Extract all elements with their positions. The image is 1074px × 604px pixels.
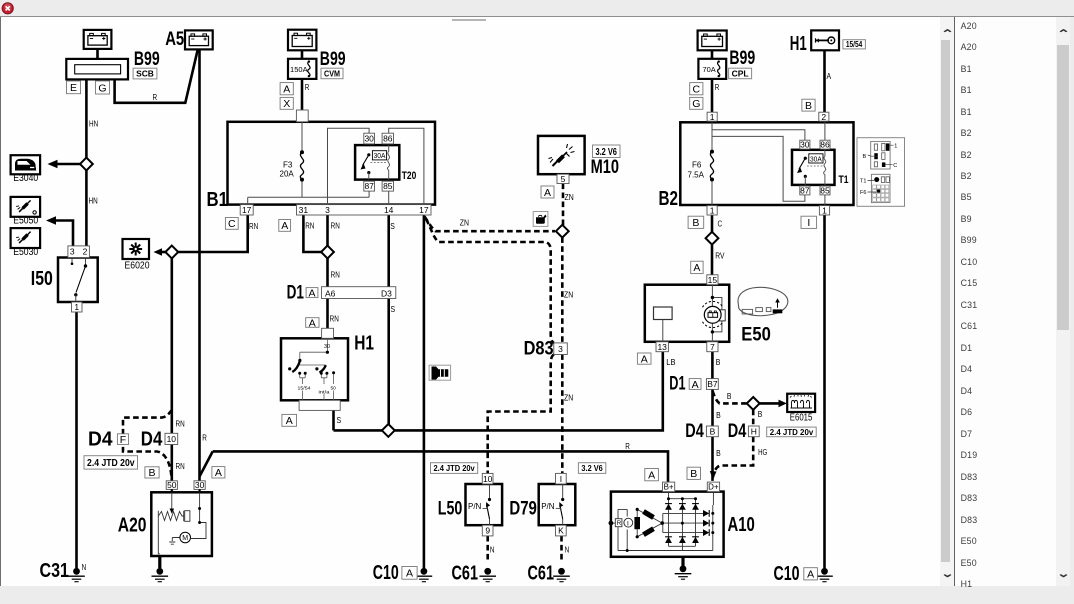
wire B from E50 pin 7 to D1 pin B7 <box>711 352 714 379</box>
wire battery link B99-SCB <box>96 49 99 59</box>
wire arrow branch to E6020 <box>158 251 167 254</box>
connector B1 conn A <box>279 220 291 232</box>
wire solid arrow from splice to E6015 <box>760 402 783 405</box>
wire B/HG dashed from splice through D4 pin H to A10 D+ wire <box>713 410 753 478</box>
svg-text:D79: D79 <box>509 498 537 519</box>
label CVM <box>321 68 343 79</box>
splice diamond E6020 branch <box>165 246 178 259</box>
wire E5050 branch to I50 pin 3 <box>56 221 73 246</box>
svg-text:1: 1 <box>710 205 715 215</box>
connector C10 left conn A <box>402 567 417 580</box>
connector B2 conn B <box>688 216 704 228</box>
svg-text:A: A <box>286 415 293 427</box>
wire S from relay H1 to bus <box>332 410 335 430</box>
fuse F6 7.5A in B2 <box>688 150 715 182</box>
svg-text:L50: L50 <box>438 498 463 519</box>
svg-text:B+: B+ <box>664 483 674 492</box>
pin D79 pin I <box>556 473 567 484</box>
svg-text:H1: H1 <box>790 33 807 55</box>
arrowhead to E5050 <box>46 216 56 224</box>
connector B99-CPL pin C <box>690 83 703 95</box>
svg-text:R: R <box>625 441 630 451</box>
splice diamond B to E6015 <box>747 397 760 410</box>
svg-text:B: B <box>758 409 763 419</box>
svg-text:ZN: ZN <box>460 217 469 227</box>
svg-text:A: A <box>283 84 290 96</box>
svg-text:20A: 20A <box>280 170 295 179</box>
label 3.2V6 M10 <box>593 145 621 158</box>
svg-text:B: B <box>716 410 721 420</box>
pin T1 pin 87 <box>800 186 810 195</box>
svg-text:C: C <box>893 163 897 169</box>
pin H1 top pin <box>322 328 334 338</box>
splice diamond E3040 branch <box>80 158 93 171</box>
pin D4 pin H <box>748 426 759 437</box>
wire dashed bypass D4 pin F (2.4 JTD 20v) <box>123 410 172 477</box>
svg-text:HN: HN <box>89 119 98 129</box>
svg-text:C: C <box>718 218 723 228</box>
connector D1 conn A lower <box>689 379 701 390</box>
ECU box B2 <box>680 122 853 205</box>
svg-text:2.4 JTD 20v: 2.4 JTD 20v <box>770 427 814 437</box>
connector B99-CVM pin A <box>280 83 293 95</box>
wire A from ignition switch H1 to B2 pin 2 <box>823 50 826 112</box>
pin B1 top pin X <box>296 110 308 122</box>
wire from B2 pin 1 right to ground C10 <box>823 215 826 568</box>
svg-text:H: H <box>751 426 757 436</box>
wire ground stub A10 <box>681 557 684 566</box>
svg-text:10: 10 <box>483 474 493 484</box>
pin A20 pin 50 <box>166 481 177 490</box>
svg-text:HN: HN <box>89 196 98 206</box>
svg-text:150A: 150A <box>290 65 308 74</box>
svg-text:31: 31 <box>299 205 309 215</box>
pin E50 pin 13 <box>656 342 668 352</box>
relay H1 ignition <box>281 338 348 400</box>
wire ground stub A20 <box>158 556 161 568</box>
car location bubble for E50 <box>738 287 788 315</box>
pin L50 pin 9 <box>482 525 493 536</box>
svg-text:S: S <box>391 304 396 314</box>
close button <box>1 1 21 21</box>
battery icon B99 CPL <box>698 31 727 51</box>
svg-text:2.4 JTD 20v: 2.4 JTD 20v <box>434 463 475 473</box>
rectifier diodes <box>665 504 672 510</box>
module M10 <box>538 136 585 174</box>
svg-text:N: N <box>82 562 87 572</box>
pin T20 pin 87 <box>364 181 375 191</box>
icon E6020 <box>123 239 150 259</box>
svg-text:RN: RN <box>176 461 185 471</box>
svg-text:C61: C61 <box>528 562 555 584</box>
svg-text:T20: T20 <box>402 170 417 182</box>
svg-text:B: B <box>727 391 732 401</box>
svg-text:A10: A10 <box>728 514 755 536</box>
svg-text:70A: 70A <box>703 65 716 74</box>
svg-text:A: A <box>406 568 413 580</box>
heater E6015 <box>787 394 815 412</box>
pin B2 top pin 1 <box>707 112 717 121</box>
label 2.4JTD left <box>84 456 138 469</box>
switch L50 <box>466 484 503 525</box>
svg-text:50: 50 <box>167 480 177 490</box>
junction unit B99 SCB <box>66 59 128 80</box>
svg-text:30A: 30A <box>374 151 386 160</box>
pin T20 pin 86 <box>382 133 393 144</box>
label 2.4JTD L50 <box>431 463 478 474</box>
B2 internal wiring <box>712 122 825 205</box>
svg-text:K: K <box>558 526 564 536</box>
pin L50 pin 10 <box>482 473 493 484</box>
icon E3040 door lock <box>11 155 40 174</box>
pin H1 bottom strip <box>299 400 340 410</box>
svg-text:A: A <box>641 353 648 365</box>
svg-text:50: 50 <box>331 385 337 391</box>
svg-text:E3040: E3040 <box>13 173 38 184</box>
svg-text:E5030: E5030 <box>13 247 38 258</box>
connector E50 conn A <box>691 261 703 273</box>
charge warning gauge in E50 <box>704 306 721 323</box>
pin D79 pin K <box>556 525 567 536</box>
svg-text:C31: C31 <box>40 560 70 582</box>
svg-text:A: A <box>827 71 832 81</box>
svg-text:30: 30 <box>195 480 205 490</box>
svg-text:E5050: E5050 <box>13 215 38 226</box>
svg-text:E6020: E6020 <box>125 260 150 271</box>
svg-text:F3: F3 <box>283 161 293 170</box>
svg-text:C: C <box>228 218 236 230</box>
icon E5050 <box>11 197 40 217</box>
pin T1 pin 30 <box>800 140 810 149</box>
svg-text:D4: D4 <box>685 421 704 442</box>
svg-text:B99: B99 <box>134 49 160 70</box>
battery icon B99 SCB <box>84 30 112 49</box>
svg-text:F6: F6 <box>692 161 702 170</box>
svg-text:I: I <box>627 520 629 527</box>
svg-text:C10: C10 <box>373 562 399 584</box>
svg-text:P/N: P/N <box>468 502 482 511</box>
pin M10 pin 5 <box>557 174 569 183</box>
arrowhead to E6015 <box>779 400 787 408</box>
svg-text:A6: A6 <box>325 289 336 299</box>
stator windings <box>634 517 640 529</box>
ground C31 <box>68 568 85 582</box>
svg-text:30A: 30A <box>810 154 822 163</box>
svg-text:E50: E50 <box>741 324 771 345</box>
svg-text:RN: RN <box>176 418 185 428</box>
arrowhead to E3040 <box>48 160 58 168</box>
wire RV from B2 pin 1 to E50 pin 15 <box>711 215 714 275</box>
splice diamond S bus <box>382 424 395 437</box>
svg-text:30: 30 <box>364 134 374 144</box>
splice diamond on RV wire below B2 <box>706 232 719 245</box>
wire battery to fuse B99-CPL <box>711 50 714 59</box>
svg-text:A: A <box>807 569 814 581</box>
arrowhead to E6020 <box>154 248 163 256</box>
svg-text:B2: B2 <box>659 188 679 210</box>
connector B2 conn I <box>801 216 817 228</box>
svg-text:A: A <box>544 187 551 199</box>
pin D1 pin B7 <box>706 379 718 390</box>
ground C61 right <box>553 568 570 582</box>
svg-text:87: 87 <box>364 181 374 191</box>
svg-text:RN: RN <box>331 220 340 230</box>
svg-text:ZN: ZN <box>565 192 574 202</box>
splice diamond ZN <box>556 225 569 238</box>
svg-text:G: G <box>98 82 106 94</box>
instrument panel E50 <box>645 285 729 342</box>
wire I50 pin 1 to ground C31 <box>75 312 78 568</box>
pin B1 pin strip <box>297 205 432 215</box>
pin A10 pin B+ <box>663 482 675 492</box>
connector H1 conn A top <box>306 318 319 328</box>
svg-text:85: 85 <box>820 186 830 196</box>
svg-text:H1: H1 <box>354 332 374 354</box>
svg-text:2.4 JTD 20v: 2.4 JTD 20v <box>87 458 135 469</box>
svg-text:S: S <box>337 415 342 425</box>
wire S from B1 pin 14 to bus diamond <box>387 215 390 425</box>
connector A20 conn A <box>212 467 225 478</box>
pin A20 pin 30 <box>194 481 205 490</box>
svg-text:ZN: ZN <box>564 392 573 402</box>
svg-text:1: 1 <box>74 302 79 312</box>
alternator A10 <box>609 492 724 557</box>
wire from B1 pin 17 right to ground C10 <box>423 215 426 568</box>
connector D4 pin F <box>117 434 128 445</box>
svg-text:1: 1 <box>710 112 715 122</box>
svg-text:M: M <box>182 535 188 542</box>
svg-text:R: R <box>617 521 622 527</box>
svg-text:A: A <box>693 262 700 274</box>
pin E50 pin 15 <box>707 275 718 285</box>
icon oil can (near M10) <box>533 212 548 227</box>
wire diagonal joining R bus to A20 pin 30 wire <box>200 451 213 476</box>
svg-text:F: F <box>120 434 126 446</box>
svg-text:D4: D4 <box>141 428 163 450</box>
wire RN from B1 pin 17 to D4 pin 10 and A20 pin 50 <box>178 215 248 252</box>
svg-text:CPL: CPL <box>732 69 749 79</box>
svg-text:30: 30 <box>800 140 810 150</box>
connector A10 conn A <box>645 469 659 481</box>
switch I50 <box>58 258 98 303</box>
svg-text:D3: D3 <box>381 289 392 299</box>
connector E50 conn A bottom <box>637 353 651 364</box>
icon E5030 <box>11 228 40 248</box>
pin T20 pin 30 <box>364 133 375 144</box>
connector C10 right conn A <box>804 568 818 580</box>
svg-text:86: 86 <box>820 140 830 150</box>
svg-text:A20: A20 <box>118 515 147 537</box>
wire ZN dashed from M10 pin 5 to splice diamond <box>562 184 565 226</box>
wire ZN dashed from B1 pin 17 to splice diamond <box>425 217 556 232</box>
wire RN from B1 pin 3 through D1 pin A6 to relay H1 <box>326 215 329 328</box>
label 2.4JTD right <box>767 427 817 437</box>
svg-text:B: B <box>805 100 812 112</box>
svg-text:3: 3 <box>325 205 330 215</box>
wire R from B99-SCB pin G to battery A5 <box>115 50 198 103</box>
connector M10 conn A <box>541 186 554 198</box>
svg-text:S: S <box>390 221 395 231</box>
svg-text:17: 17 <box>419 205 429 215</box>
pin I50 pin strip <box>68 246 90 258</box>
svg-text:A: A <box>309 317 316 329</box>
wire R from fuse B99-CVM to B1 pin X <box>301 79 304 110</box>
icon injector (near D83) <box>429 365 451 380</box>
ignition switch H1 key symbol <box>811 30 839 50</box>
wire B from D1 pin B7 to A10 pin D+ <box>711 389 714 481</box>
pin B2 bottom pin 1 right <box>819 206 829 215</box>
svg-text:15/54: 15/54 <box>846 40 863 49</box>
fuse 150A B99 CVM <box>288 59 316 79</box>
wire HN from B99-SCB pin E down to I50 pin 2 <box>85 79 88 246</box>
svg-text:1: 1 <box>822 205 827 215</box>
svg-text:I: I <box>560 474 562 484</box>
ground A20 <box>152 568 169 582</box>
pin D4 pin B <box>706 426 718 437</box>
svg-text:7.5A: 7.5A <box>688 171 705 180</box>
svg-text:2: 2 <box>83 247 88 257</box>
relay T1 <box>792 150 849 186</box>
svg-text:C10: C10 <box>774 563 800 585</box>
svg-text:int/a: int/a <box>319 390 330 396</box>
arrowhead on HG wire joining D+ wire <box>710 471 717 480</box>
svg-text:E6015: E6015 <box>790 412 813 423</box>
connector B99-CVM pin X <box>280 97 293 109</box>
ground C10 right <box>816 568 833 582</box>
svg-text:B7: B7 <box>707 379 718 389</box>
svg-text:C: C <box>693 84 701 96</box>
wire ZN dashed from B1 pin 17 to D83 pin 3 <box>426 219 554 343</box>
svg-text:5: 5 <box>561 174 566 184</box>
svg-text:15: 15 <box>708 275 718 285</box>
svg-text:7: 7 <box>710 342 715 352</box>
connector B99 pin E <box>67 81 81 94</box>
wire bus R to alternator A10 pin B+ <box>213 451 668 482</box>
svg-text:B99: B99 <box>729 48 755 69</box>
svg-text:R: R <box>715 82 720 92</box>
svg-text:ZN: ZN <box>564 289 573 299</box>
svg-text:RN: RN <box>249 221 258 231</box>
svg-text:RN: RN <box>305 220 314 230</box>
svg-text:T1: T1 <box>839 174 849 186</box>
svg-text:A: A <box>308 287 315 299</box>
connector B99 pin G <box>96 81 110 94</box>
wire battery to fuse B99-CVM <box>301 50 304 59</box>
svg-text:3: 3 <box>558 344 563 354</box>
fuse 70A B99 CPL <box>698 59 726 79</box>
pin D83 pin 3 <box>554 343 568 355</box>
svg-text:RN: RN <box>331 269 340 279</box>
svg-text:D4: D4 <box>88 428 113 450</box>
ECU box B1 <box>228 122 436 205</box>
svg-text:N: N <box>565 544 570 554</box>
svg-text:LB: LB <box>666 357 675 367</box>
connector H1 pin B <box>802 99 815 111</box>
svg-text:3.2 V6: 3.2 V6 <box>595 147 617 158</box>
svg-text:RN: RN <box>330 314 339 324</box>
connector D1 conn A <box>306 288 318 298</box>
wire B dashed from D1 pin B7 to splice <box>713 391 748 403</box>
label SCB <box>133 68 157 79</box>
svg-text:B: B <box>692 217 699 229</box>
wire bus S/LB from H1 to E50 pin 13 <box>334 352 663 431</box>
title smudge <box>452 19 486 22</box>
svg-text:RV: RV <box>715 250 724 260</box>
svg-text:B: B <box>690 468 697 480</box>
ground C61 left <box>479 568 496 582</box>
svg-text:B: B <box>716 357 721 367</box>
wire RN from B1 pin 31 to merge diamond <box>303 215 321 252</box>
svg-text:D83: D83 <box>524 338 554 359</box>
svg-text:B: B <box>148 467 155 479</box>
splice diamond RN merge <box>321 246 334 259</box>
pin B1 pin 17 left <box>240 205 253 215</box>
battery icon A5 <box>185 30 213 49</box>
ground A10 <box>675 565 692 579</box>
wire N dashed from L50 pin 9 to ground C61 <box>486 536 489 562</box>
svg-text:17: 17 <box>242 205 252 215</box>
svg-text:I50: I50 <box>31 268 53 290</box>
relay T20 <box>355 145 416 182</box>
pin D1 strip <box>322 287 396 299</box>
svg-text:14: 14 <box>384 205 394 215</box>
switch D79 <box>539 484 576 525</box>
svg-text:1: 1 <box>894 143 897 149</box>
pin T20 pin 85 <box>382 181 393 191</box>
svg-text:87: 87 <box>800 186 810 196</box>
svg-text:D1: D1 <box>287 283 305 304</box>
pin A10 pin D+ <box>707 482 719 492</box>
svg-text:B1: B1 <box>207 189 229 211</box>
svg-text:15/54: 15/54 <box>298 385 311 391</box>
svg-text:3: 3 <box>70 247 75 257</box>
B1 internal wiring <box>248 122 424 205</box>
svg-text:B99: B99 <box>320 49 346 70</box>
connector H1 conn A bottom <box>282 414 297 426</box>
svg-text:G: G <box>692 98 700 110</box>
wire N dashed from D79 pin K to ground C61 <box>560 536 563 562</box>
pin D4 pin 10 <box>165 433 178 444</box>
svg-text:F6: F6 <box>860 190 866 196</box>
svg-text:A: A <box>648 469 655 481</box>
svg-text:A: A <box>692 379 699 391</box>
svg-text:CVM: CVM <box>324 69 340 79</box>
pin E50 pin 7 <box>707 342 718 352</box>
svg-text:R: R <box>153 92 158 102</box>
wire R from fuse B99-CPL to B2 pin 1 <box>711 79 714 112</box>
svg-text:B: B <box>716 448 721 458</box>
pin T1 pin 86 <box>820 140 830 149</box>
svg-text:I: I <box>807 217 810 229</box>
svg-text:E: E <box>70 82 77 94</box>
svg-text:13: 13 <box>657 342 667 352</box>
svg-text:86: 86 <box>383 134 393 144</box>
svg-text:2: 2 <box>821 112 826 122</box>
svg-text:B: B <box>863 154 867 160</box>
connector D4 conn B <box>145 467 159 478</box>
svg-text:B: B <box>710 426 716 436</box>
wire from battery A5 down to A20 pin 30 <box>198 49 201 481</box>
pin I50 pin 1 <box>72 302 83 312</box>
wire branch to E3040 <box>56 163 80 166</box>
label 3.2V6 D79 <box>578 463 605 474</box>
svg-text:R: R <box>202 433 207 443</box>
pin B2 top pin 2 <box>819 112 829 121</box>
svg-text:D4: D4 <box>728 421 747 442</box>
svg-text:C61: C61 <box>452 562 479 584</box>
svg-text:10: 10 <box>167 434 177 444</box>
svg-text:85: 85 <box>383 181 393 191</box>
